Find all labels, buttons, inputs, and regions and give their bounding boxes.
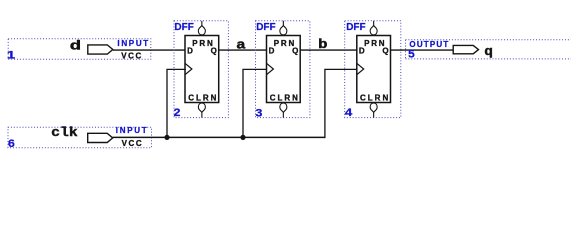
dff inst1 clock triangle <box>185 63 192 74</box>
clk feed wire to inst1 <box>167 69 186 137</box>
svg-text:d: d <box>70 39 82 54</box>
svg-text:Q: Q <box>211 47 218 56</box>
wire q <box>390 49 453 51</box>
svg-text:q: q <box>484 44 493 59</box>
output pin q selection box left edge <box>405 40 407 59</box>
svg-text:1: 1 <box>7 49 15 61</box>
input pin clk selection box <box>8 127 152 148</box>
svg-text:Q: Q <box>292 47 299 56</box>
dff inst3 CLRN stem <box>373 112 375 118</box>
dff inst1 body <box>185 36 219 103</box>
output pin q selection box bottom edge <box>406 58 571 60</box>
svg-text:CLRN: CLRN <box>188 93 218 102</box>
svg-text:Q: Q <box>382 47 389 56</box>
dff inst3 PRN bubble <box>370 26 377 35</box>
svg-text:OUTPUT: OUTPUT <box>409 40 449 49</box>
junction dot at inst1 feed <box>164 135 169 140</box>
svg-text:4: 4 <box>345 107 354 119</box>
dff inst2 CLRN stem <box>282 112 284 118</box>
svg-text:INPUT: INPUT <box>117 39 149 48</box>
dff inst1 PRN stem <box>201 21 203 26</box>
dff inst2 CLRN bubble <box>280 103 287 112</box>
wire a <box>219 49 267 51</box>
wire b <box>300 49 357 51</box>
dff inst3 CLRN bubble <box>370 103 377 112</box>
svg-text:VCC: VCC <box>122 139 144 148</box>
clk feed wire to inst3 <box>325 69 357 138</box>
svg-text:D: D <box>187 47 193 56</box>
dff inst2 PRN stem <box>282 21 284 26</box>
input port symbol d <box>88 45 113 54</box>
svg-text:DFF: DFF <box>346 22 365 33</box>
svg-text:6: 6 <box>8 138 15 150</box>
dff inst1 selection box <box>174 21 228 118</box>
clk feed wire to inst2 <box>243 69 267 137</box>
svg-text:D: D <box>359 47 365 56</box>
svg-text:DFF: DFF <box>256 22 275 33</box>
input pin d selection box <box>8 39 151 59</box>
clk rail wire <box>113 136 325 138</box>
input port symbol clk <box>88 133 113 142</box>
svg-text:clk: clk <box>51 125 78 140</box>
dff inst1 CLRN stem <box>201 112 203 118</box>
svg-text:DFF: DFF <box>174 22 193 33</box>
dff inst3 PRN stem <box>373 21 375 26</box>
svg-text:VCC: VCC <box>121 52 143 61</box>
svg-text:5: 5 <box>408 49 415 61</box>
svg-text:CLRN: CLRN <box>270 93 300 102</box>
svg-text:INPUT: INPUT <box>116 126 149 135</box>
wire d <box>113 49 186 51</box>
svg-text:CLRN: CLRN <box>360 93 390 102</box>
dff inst1 CLRN bubble <box>198 103 205 112</box>
dff inst3 clock triangle <box>357 63 364 74</box>
dff inst3 selection box <box>345 21 401 118</box>
output pin q selection box top edge <box>406 39 571 41</box>
dff inst2 PRN bubble <box>280 26 287 35</box>
dff inst3 body <box>357 36 391 103</box>
svg-text:D: D <box>269 47 275 56</box>
dff inst2 body <box>267 36 301 103</box>
output port symbol q <box>453 45 478 53</box>
dff inst1 PRN bubble <box>198 26 205 35</box>
dff inst2 selection box <box>256 21 310 118</box>
svg-text:2: 2 <box>174 107 181 119</box>
svg-text:b: b <box>318 37 328 52</box>
dff inst2 clock triangle <box>267 63 274 74</box>
svg-text:3: 3 <box>255 107 262 119</box>
svg-text:a: a <box>236 37 246 52</box>
junction dot at inst2 feed <box>240 135 245 140</box>
